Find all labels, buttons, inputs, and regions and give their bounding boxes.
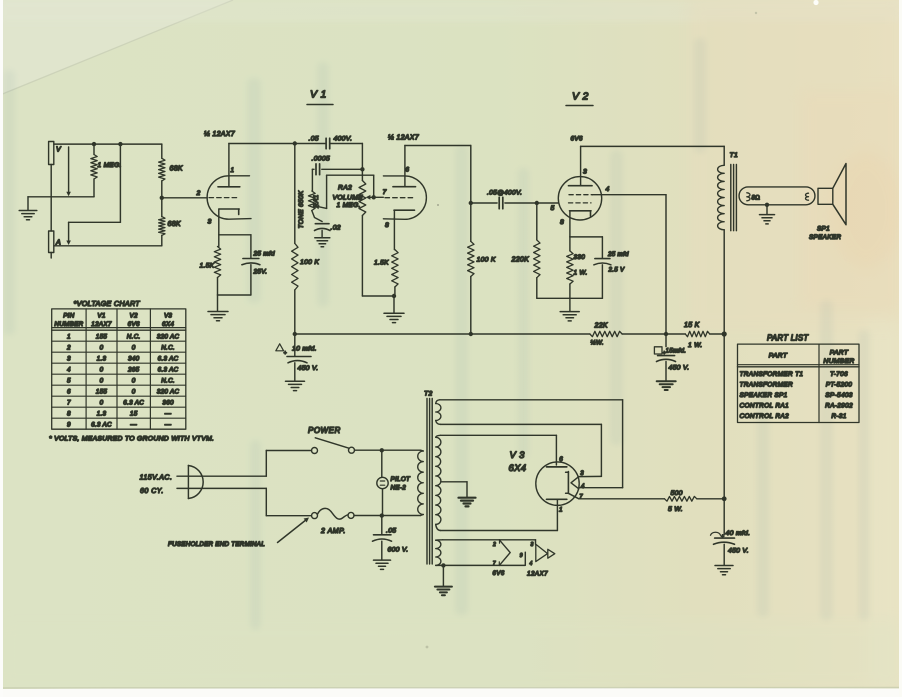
svg-text:600 V.: 600 V. [388, 547, 409, 554]
svg-text:4: 4 [581, 484, 585, 490]
svg-text:—: — [164, 421, 172, 428]
svg-text:100 K: 100 K [300, 259, 319, 266]
svg-text:SPEAKER SP1: SPEAKER SP1 [740, 392, 788, 399]
svg-text:1 MEG.: 1 MEG. [337, 202, 361, 209]
svg-text:7: 7 [383, 189, 387, 196]
svg-text:T1: T1 [730, 152, 739, 159]
svg-text:340: 340 [128, 355, 140, 362]
svg-text:* VOLTS, MEASURED TO GROUND WI: * VOLTS, MEASURED TO GROUND WITH VTVM. [49, 436, 214, 443]
svg-text:0: 0 [132, 377, 136, 384]
svg-text:8: 8 [385, 222, 389, 229]
svg-text:115V.AC.: 115V.AC. [140, 475, 173, 482]
svg-text:9: 9 [520, 553, 523, 559]
svg-text:7: 7 [579, 494, 583, 500]
svg-text:SPEAKER: SPEAKER [809, 234, 841, 241]
svg-text:1.3: 1.3 [97, 410, 107, 417]
svg-text:.05@400V.: .05@400V. [487, 190, 522, 197]
svg-text:25 mfd: 25 mfd [607, 251, 629, 258]
svg-text:R-31: R-31 [831, 413, 846, 420]
svg-text:1.5K: 1.5K [374, 260, 389, 267]
svg-text:155: 155 [96, 388, 108, 395]
svg-text:3: 3 [580, 471, 584, 477]
svg-text:6.3 AC: 6.3 AC [91, 421, 112, 428]
svg-text:6: 6 [559, 456, 563, 463]
svg-text:TRANSFORMER T1: TRANSFORMER T1 [740, 371, 804, 378]
svg-text:0: 0 [100, 344, 104, 351]
svg-text:9: 9 [67, 421, 71, 428]
svg-text:—: — [164, 410, 172, 417]
svg-text:V1: V1 [97, 313, 105, 320]
svg-text:2.5 V: 2.5 V [608, 267, 626, 274]
svg-text:60 CY.: 60 CY. [140, 488, 164, 495]
svg-text:100 K: 100 K [477, 257, 496, 264]
svg-text:N.C.: N.C. [127, 333, 141, 340]
svg-text:220K: 220K [511, 257, 530, 264]
svg-text:T-706: T-706 [830, 371, 848, 378]
svg-text:6.3 AC: 6.3 AC [123, 399, 144, 406]
svg-text:0: 0 [100, 377, 104, 384]
svg-text:6: 6 [67, 388, 71, 395]
svg-text:A: A [55, 240, 61, 247]
svg-text:15: 15 [130, 410, 138, 417]
svg-text:8: 8 [67, 410, 71, 417]
svg-text:V2: V2 [130, 313, 138, 320]
svg-text:1.3: 1.3 [97, 355, 107, 362]
svg-text:VOLUME: VOLUME [333, 195, 364, 202]
svg-text:5: 5 [551, 205, 555, 212]
svg-text:½W.: ½W. [591, 340, 604, 347]
svg-text:PART: PART [769, 353, 788, 360]
svg-text:CONTROL RA1: CONTROL RA1 [740, 402, 789, 409]
svg-text:V 1: V 1 [310, 89, 327, 101]
svg-text:500: 500 [671, 490, 683, 497]
svg-text:6V6: 6V6 [128, 321, 140, 328]
svg-text:320 AC: 320 AC [157, 388, 180, 395]
svg-text:.05: .05 [309, 136, 319, 143]
svg-text:TONE 650K: TONE 650K [298, 190, 305, 228]
svg-text:155: 155 [96, 333, 108, 340]
svg-text:N.C.: N.C. [161, 377, 175, 384]
svg-text:V3: V3 [164, 313, 172, 320]
svg-text:8Ω: 8Ω [752, 195, 761, 202]
svg-text:+: + [284, 351, 288, 357]
svg-text:450 V.: 450 V. [728, 548, 749, 555]
svg-text:4: 4 [530, 561, 533, 567]
svg-text:6V6: 6V6 [493, 571, 505, 577]
svg-text:RA-2902: RA-2902 [825, 402, 853, 409]
svg-text:15mfd.: 15mfd. [666, 348, 687, 355]
svg-text:3: 3 [208, 219, 212, 226]
svg-text:½ 12AX7: ½ 12AX7 [388, 134, 420, 142]
svg-text:2: 2 [196, 190, 201, 197]
svg-text:.05: .05 [386, 528, 396, 535]
svg-text:1 W.: 1 W. [574, 270, 588, 277]
svg-text:360: 360 [162, 399, 174, 406]
svg-text:CONTROL RA2: CONTROL RA2 [740, 413, 789, 420]
svg-text:.0005: .0005 [312, 156, 331, 163]
svg-text:6.3 AC: 6.3 AC [158, 355, 179, 362]
svg-text:25 mfd: 25 mfd [253, 251, 275, 258]
svg-text:4: 4 [67, 366, 71, 373]
svg-text:TRANSFORMER: TRANSFORMER [740, 381, 794, 388]
svg-text:5 W.: 5 W. [668, 506, 683, 513]
svg-text:SP1: SP1 [817, 226, 830, 233]
svg-text:40 mfd.: 40 mfd. [726, 530, 751, 537]
svg-text:0: 0 [132, 388, 136, 395]
svg-text:6X4: 6X4 [509, 463, 527, 474]
svg-text:265: 265 [127, 366, 140, 373]
svg-text:POWER: POWER [308, 426, 341, 435]
svg-text:450 V.: 450 V. [669, 365, 690, 372]
svg-text:450 V.: 450 V. [298, 365, 319, 372]
svg-text:2 AMP.: 2 AMP. [320, 528, 346, 535]
svg-text:1 MEG.: 1 MEG. [98, 162, 122, 169]
svg-text:T2: T2 [424, 391, 433, 398]
svg-text:0: 0 [100, 399, 104, 406]
svg-text:N.C.: N.C. [161, 344, 175, 351]
svg-text:0: 0 [132, 344, 136, 351]
svg-text:68K: 68K [168, 221, 181, 228]
svg-text:—: — [129, 421, 137, 428]
svg-text:V 3: V 3 [510, 450, 526, 461]
svg-text:68K: 68K [170, 166, 183, 173]
svg-text:320 AC: 320 AC [157, 333, 180, 340]
svg-text:4: 4 [606, 186, 610, 193]
svg-text:7: 7 [493, 561, 496, 567]
svg-text:1: 1 [231, 167, 235, 174]
svg-text:3: 3 [583, 169, 587, 176]
svg-text:PT-5200: PT-5200 [826, 381, 853, 388]
svg-text:3: 3 [67, 355, 71, 362]
svg-text:NUMBER: NUMBER [54, 321, 83, 328]
svg-text:22K: 22K [594, 323, 608, 330]
svg-text:1: 1 [559, 507, 563, 514]
svg-text:FUSEHOLDER END TERMINAL: FUSEHOLDER END TERMINAL [168, 541, 265, 548]
svg-text:2: 2 [492, 542, 496, 548]
svg-text:SP-5403: SP-5403 [825, 392, 852, 399]
svg-text:PILOT: PILOT [391, 476, 412, 483]
svg-text:NE-2: NE-2 [391, 485, 407, 492]
svg-text:6: 6 [406, 167, 410, 174]
svg-text:0: 0 [100, 366, 104, 373]
svg-text:*VOLTAGE CHART: *VOLTAGE CHART [74, 299, 141, 308]
svg-text:RA2: RA2 [338, 185, 352, 192]
svg-text:NUMBER: NUMBER [823, 358, 854, 365]
svg-text:12AX7: 12AX7 [527, 571, 548, 578]
svg-text:V 2: V 2 [572, 91, 589, 103]
svg-text:6.3 AC: 6.3 AC [158, 366, 179, 373]
svg-text:12AX7: 12AX7 [91, 321, 112, 328]
svg-text:1: 1 [67, 333, 71, 340]
svg-text:8: 8 [560, 219, 564, 226]
svg-text:7: 7 [67, 399, 71, 406]
svg-text:25V.: 25V. [253, 269, 268, 276]
svg-text:330: 330 [574, 254, 586, 261]
svg-text:½ 12AX7: ½ 12AX7 [204, 130, 236, 138]
svg-text:5: 5 [67, 377, 71, 384]
svg-text:1 W.: 1 W. [688, 342, 703, 349]
svg-text:10 mfd.: 10 mfd. [292, 346, 317, 353]
svg-text:2: 2 [66, 344, 71, 351]
svg-text:.02: .02 [331, 225, 341, 232]
svg-text:PIN: PIN [63, 313, 75, 320]
svg-text:1.5K: 1.5K [200, 263, 215, 270]
svg-text:6X4: 6X4 [162, 321, 174, 328]
svg-text:3: 3 [531, 542, 534, 548]
svg-text:PART: PART [830, 350, 849, 357]
svg-text:15 K: 15 K [684, 322, 700, 329]
svg-text:6V6: 6V6 [571, 136, 583, 143]
svg-text:PART LIST: PART LIST [767, 334, 809, 343]
svg-text:400V.: 400V. [334, 136, 353, 143]
